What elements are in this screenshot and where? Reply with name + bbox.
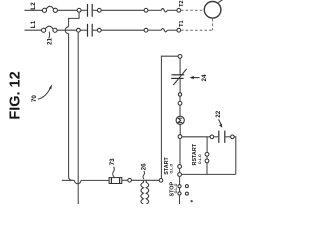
label RSTART: [192, 143, 198, 165]
svg-text:L2: L2: [30, 2, 37, 10]
contactor coil M: [176, 116, 184, 124]
wire to resistor: [81, 179, 109, 181]
wire: [80, 29, 87, 31]
leader arrow from label 24: [190, 76, 200, 79]
overload heater OL on L2: [161, 9, 167, 12]
svg-text:T2: T2: [179, 0, 185, 6]
terminal circle: [144, 28, 148, 32]
label O.L.O STOP: [174, 183, 178, 193]
STOP pushbutton contact top: [178, 185, 181, 188]
wire: [81, 9, 87, 11]
wire right side down: [234, 137, 236, 175]
motor circle: [204, 2, 221, 19]
wire: [148, 9, 161, 11]
label STOP: [169, 182, 175, 197]
wire control top rail: [182, 136, 210, 138]
label 21: [46, 38, 53, 46]
wire: [179, 168, 181, 172]
transformer 26 primary winding: [141, 180, 144, 204]
svg-text:O.L.O: O.L.O: [198, 154, 202, 164]
wire M chain to START: [179, 139, 181, 165]
wire: [167, 9, 177, 11]
wire: [101, 29, 144, 31]
stray mark bottom: [190, 200, 192, 202]
label T2: [179, 0, 185, 6]
wire: [179, 96, 181, 101]
svg-text:T1: T1: [179, 20, 185, 26]
terminal circle: [128, 178, 132, 182]
label 73: [109, 158, 116, 166]
wire L1 lead-in: [25, 29, 42, 31]
svg-text:FIG. 12: FIG. 12: [8, 71, 24, 119]
wire L1 to node: [57, 29, 76, 31]
label L2: [30, 2, 37, 10]
label O.L.O RSTART: [198, 154, 202, 164]
STOP auxiliary contact top: [185, 185, 188, 188]
svg-text:73: 73: [109, 158, 116, 166]
resistor 73: [109, 178, 122, 184]
wire: [179, 124, 181, 134]
wire from L2 node down and left: [69, 12, 80, 27]
terminal circle: [97, 8, 101, 12]
terminal circle: [97, 28, 101, 32]
variable capacitor 24: [171, 69, 187, 85]
motor lead stub: [218, 0, 223, 3]
leader arrow from 70: [38, 84, 52, 99]
leader from label 26: [143, 171, 145, 179]
svg-text:26: 26: [141, 163, 148, 171]
label 26: [141, 163, 148, 171]
breaker switch on L2: [42, 6, 57, 12]
wire: [93, 9, 98, 11]
STOP auxiliary contact bottom: [185, 192, 188, 195]
contact 22 right terminal: [231, 135, 235, 139]
wire: [214, 136, 219, 138]
wire branch to RSTART and 22: [182, 173, 236, 175]
wire: [93, 29, 98, 31]
wire capacitor branch left side: [161, 56, 178, 178]
svg-text:21: 21: [46, 38, 53, 46]
terminal circle: [144, 8, 148, 12]
svg-text:70: 70: [31, 95, 38, 103]
wire overhang at corner: [62, 179, 73, 181]
RSTART pushbutton contact bottom: [205, 159, 209, 163]
contact 22 (normally-open): [219, 131, 225, 143]
wire L2 to node: [57, 9, 77, 11]
svg-text:24: 24: [201, 74, 208, 82]
contact M2 (normally-open) on L1: [88, 24, 93, 37]
contact 22 left terminal: [210, 135, 214, 139]
START pushbutton contact top: [178, 165, 182, 169]
wire: [179, 79, 181, 93]
wire: [122, 179, 128, 181]
wire: [148, 29, 161, 31]
label O.L.O START: [170, 164, 174, 174]
svg-text:22: 22: [215, 110, 222, 118]
label FIG. 12: [8, 71, 24, 119]
label 70: [31, 95, 38, 103]
wire L2 lead-in: [25, 9, 43, 11]
terminal T2 circle: [177, 8, 181, 12]
wire: [206, 156, 208, 159]
STOP pushbutton contact bottom: [178, 192, 181, 195]
leader arrow from 22: [219, 119, 223, 127]
wire from L1 node straight down: [77, 32, 79, 204]
wire STOP to bottom edge: [179, 195, 181, 204]
wire: [101, 9, 144, 11]
label L1: [30, 20, 37, 28]
label 24: [201, 74, 208, 82]
wire: [225, 136, 230, 138]
svg-text:O.L.O: O.L.O: [170, 164, 174, 174]
breaker switch 21 on L1: [42, 26, 58, 32]
terminal circle top of chain: [178, 55, 182, 59]
terminal circle: [178, 101, 182, 105]
wire to transformer: [132, 179, 160, 181]
wire: [179, 105, 181, 116]
dashed wire T2 to motor: [181, 9, 204, 11]
dashed wire T1 to motor: [181, 29, 213, 31]
leader from label 73: [113, 167, 115, 178]
leader from label 21: [48, 32, 51, 39]
RSTART pushbutton contact top: [205, 152, 209, 156]
wire: [206, 163, 208, 175]
label 22: [215, 110, 222, 118]
terminal circle at branch end: [159, 179, 163, 183]
svg-text:O.L.O: O.L.O: [174, 183, 178, 193]
label T1: [179, 20, 185, 26]
wire bottom horizontal to hop: [73, 179, 75, 181]
node terminal on L1 (drop point): [77, 28, 81, 32]
dashed wire motor drop: [212, 19, 214, 30]
wire hop over vertical: [74, 180, 81, 183]
node terminal on L2 (drop point): [77, 8, 81, 12]
wire: [167, 29, 177, 31]
terminal circle: [178, 93, 181, 96]
terminal T1 circle: [177, 28, 181, 32]
contact M1 (normally-open) on L2: [88, 4, 93, 17]
wire: [179, 188, 181, 192]
wire: [179, 58, 181, 74]
svg-text:L1: L1: [30, 20, 37, 28]
junction circle below coil: [178, 135, 182, 139]
START pushbutton contact bottom: [178, 173, 182, 177]
wire left vertical run: [69, 34, 73, 181]
label START: [164, 157, 170, 175]
wire START to STOP: [179, 176, 181, 184]
wire RSTART vertical: [206, 137, 208, 153]
wire hop over L1: [65, 27, 68, 34]
overload heater OL on L1: [161, 29, 167, 32]
transformer 26 secondary winding: [146, 180, 149, 204]
